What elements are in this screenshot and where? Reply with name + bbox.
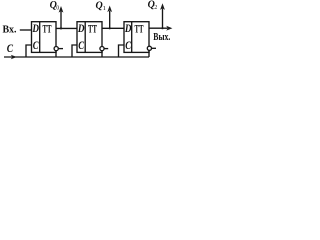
wire Q of DD2 to D of DD3	[102, 27, 124, 29]
svg-text:Вх.: Вх.	[3, 24, 17, 35]
wire inverse output stub of DD2	[104, 48, 108, 50]
wire Q of DD1 to D of DD2	[56, 27, 77, 29]
svg-text:D: D	[124, 23, 132, 35]
svg-text:Вых.: Вых.	[153, 32, 170, 43]
svg-text:C: C	[125, 40, 131, 52]
svg-text:D: D	[32, 23, 40, 35]
wire riser Q1	[109, 11, 111, 28]
pin label D of DD2	[77, 23, 85, 35]
node junction Q1	[109, 27, 111, 29]
wire input to D of FF1	[20, 29, 32, 31]
inverse output bubble of DD2	[100, 47, 104, 51]
flip-flop DD1 divider	[39, 22, 41, 53]
pin label C of DD3	[125, 40, 131, 52]
label TT of DD3	[135, 23, 144, 35]
label Вых. (output)	[153, 32, 170, 43]
label Q1	[96, 0, 106, 12]
wire DD3 corner to clock line	[148, 50, 150, 57]
node junction Q2	[161, 27, 163, 29]
label TT of DD2	[88, 23, 97, 35]
wire clock riser to C of DD2	[72, 45, 77, 57]
label Q2	[148, 0, 158, 11]
wire inverse output stub of DD1	[58, 48, 63, 50]
svg-text:1: 1	[103, 5, 106, 12]
inverse output bubble of DD1	[54, 47, 58, 51]
pin label C of DD2	[78, 40, 84, 52]
wire inverse output stub of DD3	[152, 47, 156, 49]
svg-text:TT: TT	[43, 23, 52, 35]
svg-text:TT: TT	[88, 23, 97, 35]
arrowhead output	[166, 26, 172, 31]
svg-text:D: D	[77, 23, 85, 35]
pin label D of DD3	[124, 23, 132, 35]
wire riser Q2	[162, 9, 164, 29]
wire Q of DD3 to output	[149, 27, 168, 29]
pin label C of DD1	[33, 40, 39, 52]
wire clock riser to C of DD3	[119, 45, 125, 57]
node junction Q0	[60, 27, 62, 29]
svg-text:TT: TT	[135, 23, 144, 35]
flip-flop DD2 divider	[84, 22, 86, 53]
svg-text:C: C	[78, 40, 84, 52]
svg-text:2: 2	[154, 5, 157, 11]
wire clock line C	[4, 56, 149, 58]
wire clock riser to C of DD1	[26, 45, 32, 57]
arrowhead Q2	[160, 3, 165, 10]
flip-flop DD2 (D trigger) box	[77, 22, 102, 53]
wire DD2 corner to clock line	[101, 51, 103, 57]
wire riser Q0	[60, 11, 62, 28]
label Вх. (input)	[3, 24, 17, 35]
svg-text:0: 0	[56, 5, 59, 11]
pin label D of DD1	[32, 23, 40, 35]
label Q0	[50, 0, 60, 11]
svg-text:C: C	[33, 40, 39, 52]
svg-text:C: C	[7, 43, 14, 55]
label TT of DD1	[43, 23, 52, 35]
flip-flop DD1 (D trigger) box	[32, 22, 57, 53]
arrowhead Q0	[59, 6, 64, 13]
wire DD1 corner to clock line	[55, 51, 57, 57]
flip-flop DD3 divider	[131, 22, 133, 53]
label C (clock input)	[7, 43, 14, 55]
inverse output bubble of DD3	[147, 46, 151, 50]
arrowhead Q1	[107, 6, 112, 13]
flip-flop DD3 (D trigger) box	[124, 22, 149, 53]
arrowhead clock	[11, 55, 17, 60]
